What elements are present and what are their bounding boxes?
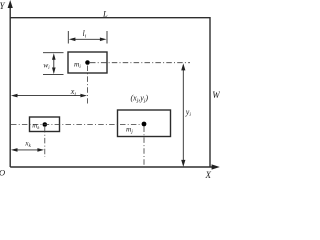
svg-text:O: O bbox=[0, 167, 5, 177]
svg-text:X: X bbox=[205, 170, 212, 180]
svg-text:W: W bbox=[212, 90, 220, 100]
svg-text:L: L bbox=[102, 9, 108, 19]
svg-text:(xj,yj): (xj,yj) bbox=[131, 94, 149, 105]
